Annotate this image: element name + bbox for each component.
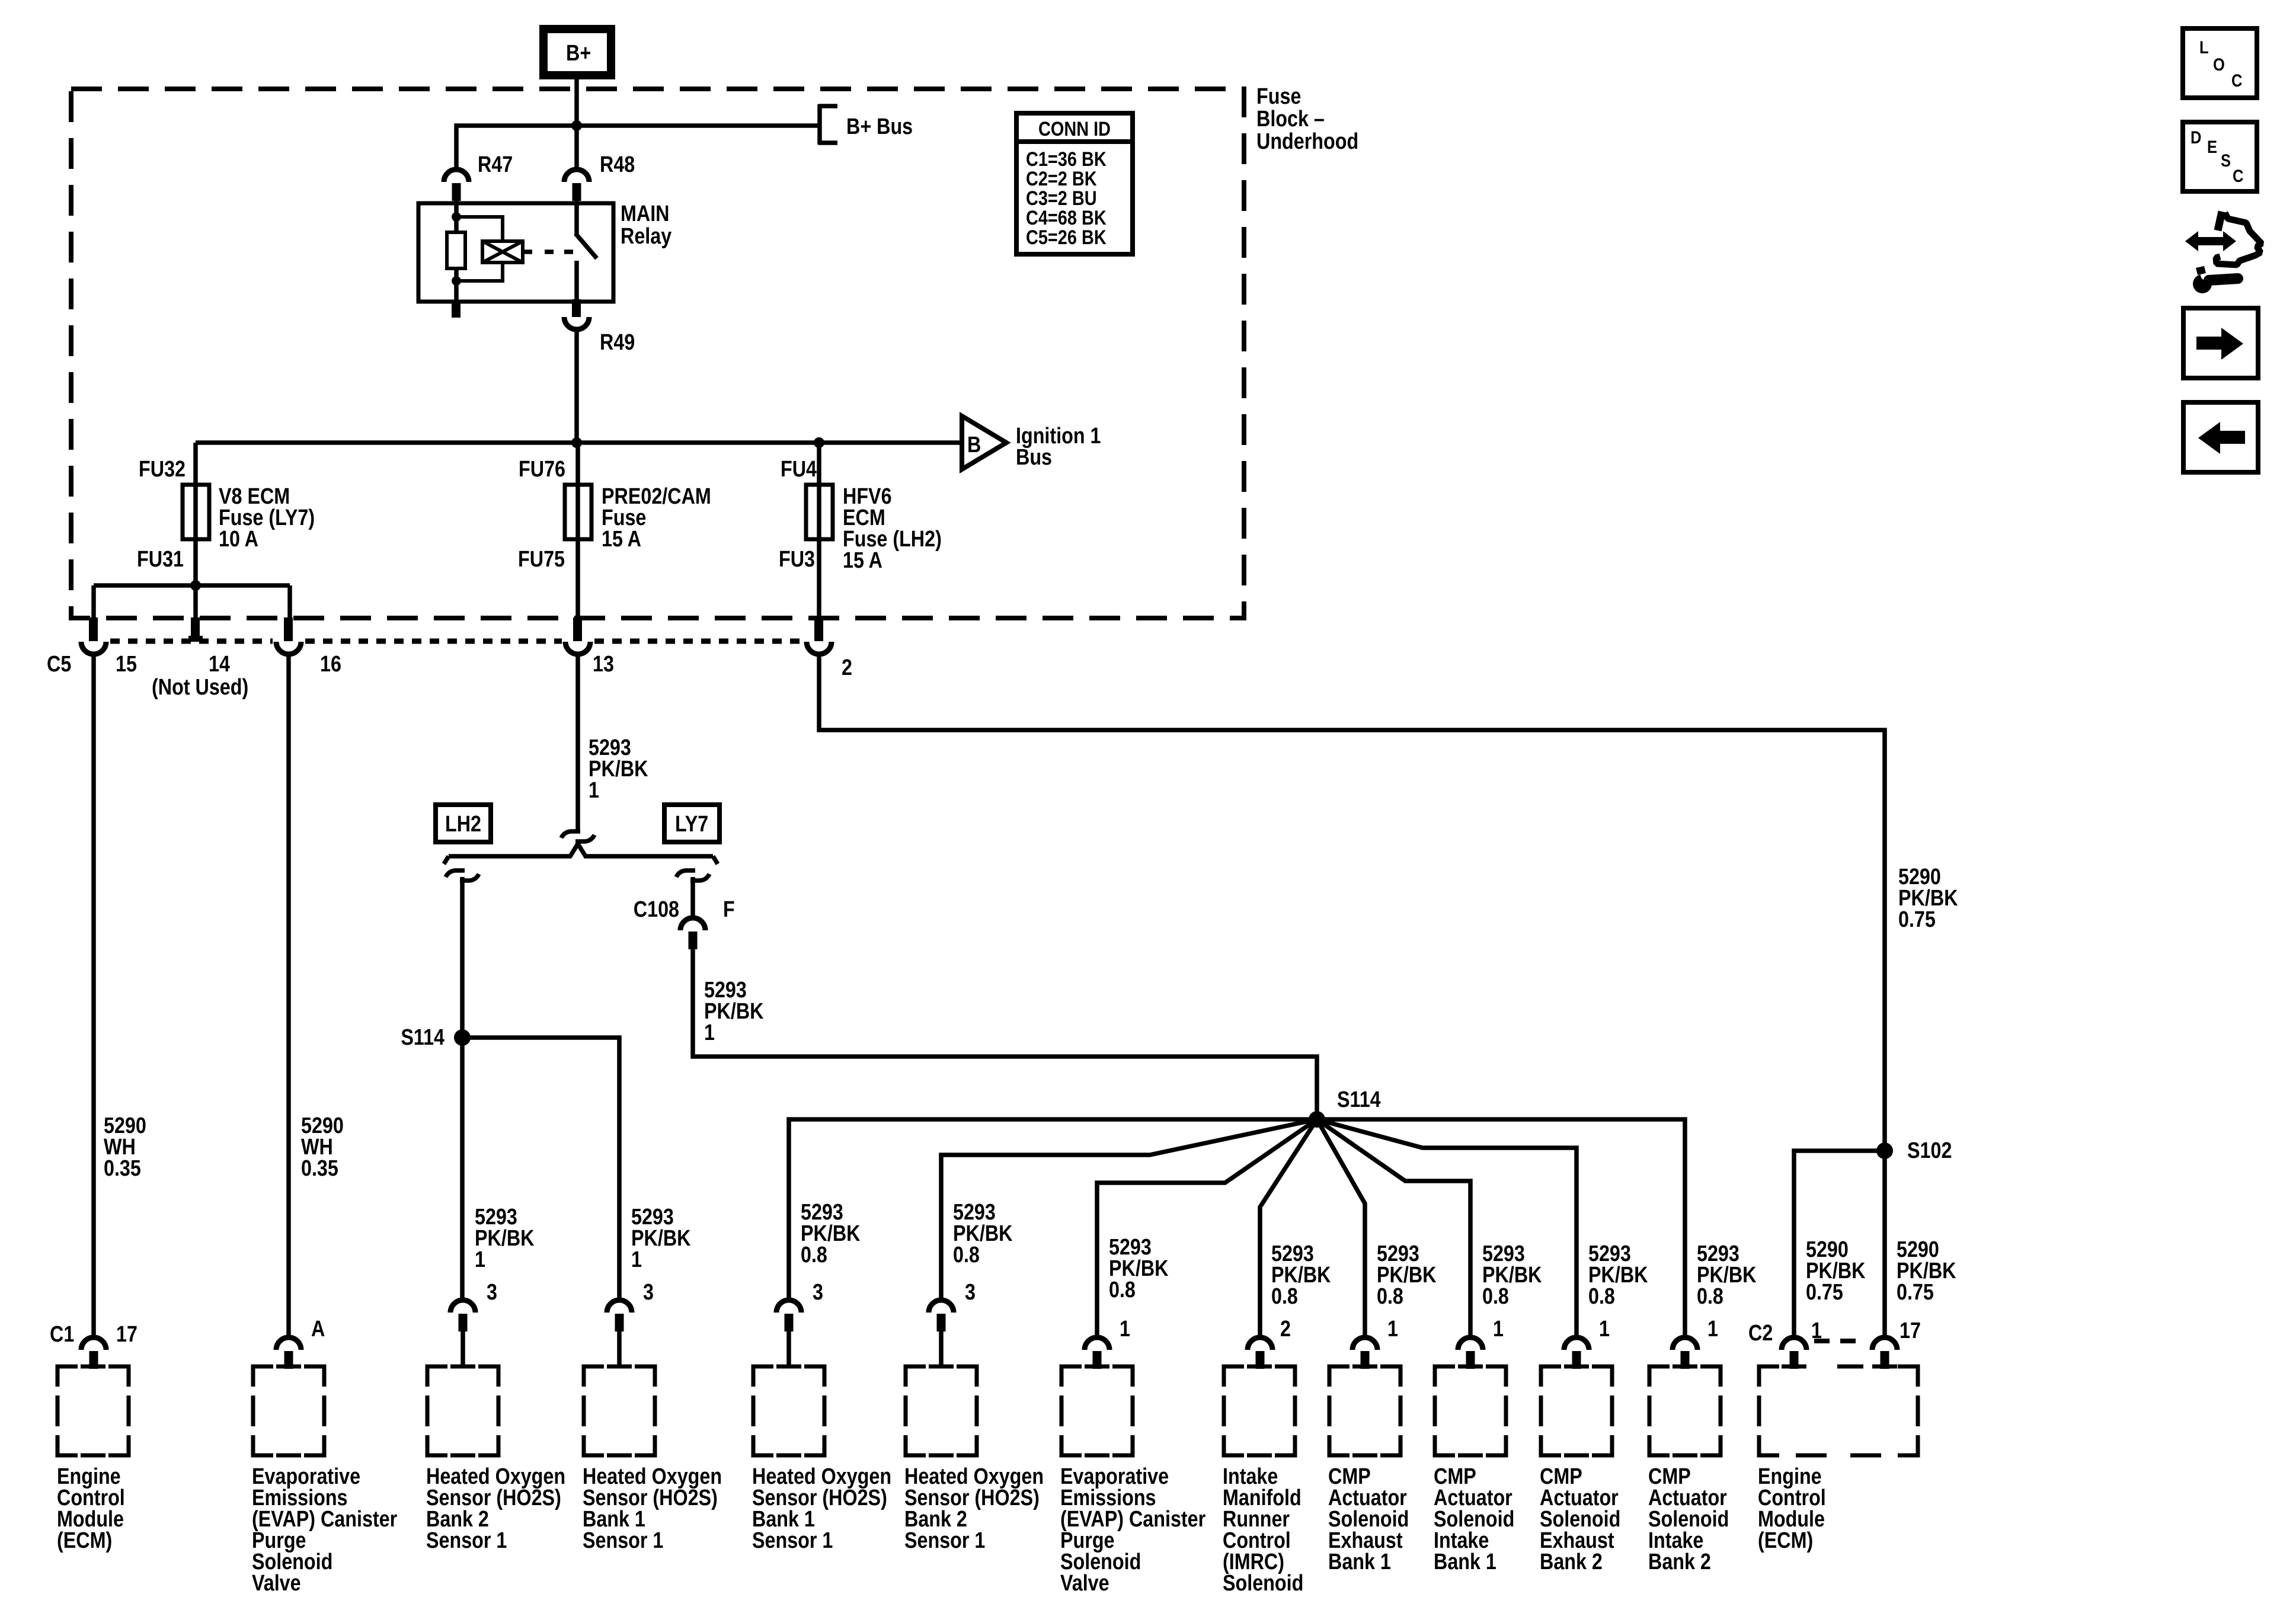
connector IMRC pin 2 xyxy=(1248,1317,1291,1369)
fan wire to HO2S B1S1 (pin5) xyxy=(789,1119,1317,1299)
HO2S bank2 sensor1 box (center) xyxy=(906,1366,977,1455)
svg-text:2: 2 xyxy=(842,655,852,680)
svg-text:3: 3 xyxy=(965,1280,976,1305)
relay bottom stubs xyxy=(454,281,459,300)
label 5293 PK/BK 0.8 (pin11) xyxy=(1588,1241,1648,1309)
C5 pin 16 xyxy=(276,617,341,677)
svg-text:C: C xyxy=(2231,71,2242,90)
EVAP canister purge solenoid valve box (left) xyxy=(253,1366,324,1455)
svg-text:0.35: 0.35 xyxy=(301,1156,338,1181)
branch S114L to HO2S B1S1 xyxy=(462,1038,619,1299)
svg-text:2: 2 xyxy=(1280,1317,1291,1342)
label 5293 PK/BK 0.8 (pin12) xyxy=(1697,1241,1757,1309)
fan wire to EVAP (pin7) xyxy=(1097,1119,1317,1337)
DESC icon box xyxy=(2183,122,2257,191)
svg-text:3: 3 xyxy=(643,1280,654,1305)
C5 pin 2 xyxy=(807,617,852,680)
svg-text:C108: C108 xyxy=(634,897,679,922)
svg-text:Bank 1: Bank 1 xyxy=(1328,1550,1391,1574)
svg-text:Fuse: Fuse xyxy=(1256,84,1301,109)
svg-text:0.8: 0.8 xyxy=(1588,1284,1615,1309)
svg-text:1: 1 xyxy=(1387,1317,1398,1342)
wire B+ down to junction xyxy=(574,75,579,169)
label 5290 PK/BK 0.75 (C2 pin17) xyxy=(1897,1237,1956,1305)
svg-text:13: 13 xyxy=(593,652,614,677)
svg-text:C1: C1 xyxy=(50,1322,74,1347)
connector EVAP pin A xyxy=(276,1317,325,1369)
B+ Bus bracket xyxy=(818,104,913,145)
svg-text:0.8: 0.8 xyxy=(1697,1284,1723,1309)
label 5293 PK/BK 0.8 (pin6) xyxy=(953,1200,1013,1267)
svg-text:Solenoid: Solenoid xyxy=(1223,1571,1303,1596)
HO2S bank2 sensor1 label xyxy=(426,1464,565,1553)
Ignition 1 Bus triangle xyxy=(962,416,1101,470)
svg-text:Underhood: Underhood xyxy=(1256,129,1358,154)
svg-text:Sensor 1: Sensor 1 xyxy=(426,1528,507,1553)
connector C108 pin F xyxy=(634,897,735,949)
connector CMP intake B1 pin 1 xyxy=(1458,1317,1504,1369)
svg-text:1: 1 xyxy=(1493,1317,1504,1342)
fan wire to HO2S B2S1 (pin6) xyxy=(941,1119,1317,1299)
EVAP left label xyxy=(252,1464,397,1596)
svg-text:Block –: Block – xyxy=(1256,107,1325,132)
svg-text:Valve: Valve xyxy=(1060,1571,1109,1596)
svg-text:B+: B+ xyxy=(566,41,591,66)
fan wire to CMP intake B1 (pin10) xyxy=(1317,1119,1470,1337)
ignition 1 bus horizontal wire xyxy=(196,440,962,445)
hand with wrench icon xyxy=(2185,212,2262,293)
svg-text:Sensor 1: Sensor 1 xyxy=(752,1528,833,1553)
svg-text:MAIN: MAIN xyxy=(621,201,670,226)
CMP exhaust bank1 label xyxy=(1328,1464,1409,1574)
svg-text:O: O xyxy=(2213,55,2225,74)
HO2S bank1 sensor1 label (center) xyxy=(752,1464,891,1553)
connector C2 pin 1 (ECM right) xyxy=(1748,1318,1822,1369)
label 5293 PK/BK 1 (HO2S B2S1) xyxy=(475,1205,535,1272)
svg-text:E: E xyxy=(2207,137,2217,156)
fuse block dashed border xyxy=(71,89,1244,618)
svg-text:1: 1 xyxy=(475,1247,485,1272)
connector CMP exhaust B1 pin 1 xyxy=(1352,1317,1398,1369)
svg-text:FU76: FU76 xyxy=(519,457,565,482)
LH2 tag box xyxy=(436,805,491,842)
wire C5 pin2 to S102 xyxy=(819,657,1885,1337)
svg-text:FU32: FU32 xyxy=(139,457,186,482)
label 5293 PK/BK 0.8 (pin8) xyxy=(1271,1241,1331,1309)
svg-text:R47: R47 xyxy=(478,152,513,177)
LY7 tag box xyxy=(664,805,720,842)
C5 pin 13 xyxy=(565,617,614,677)
svg-text:(ECM): (ECM) xyxy=(1758,1528,1813,1553)
svg-text:16: 16 xyxy=(320,652,341,677)
svg-text:Relay: Relay xyxy=(621,224,672,249)
svg-text:F: F xyxy=(723,897,735,922)
HO2S bank2 sensor1 label (center) xyxy=(904,1464,1044,1553)
C5 pin 15 xyxy=(81,617,137,677)
svg-text:0.75: 0.75 xyxy=(1898,907,1936,932)
svg-text:0.8: 0.8 xyxy=(1482,1284,1509,1309)
CMP intake bank2 label xyxy=(1648,1464,1729,1574)
EVAP canister purge solenoid valve box (right) xyxy=(1061,1366,1133,1455)
svg-text:Bank 2: Bank 2 xyxy=(1648,1550,1711,1574)
svg-text:1: 1 xyxy=(1599,1317,1610,1342)
fuse FU32 xyxy=(137,443,315,572)
svg-text:D: D xyxy=(2191,127,2201,147)
C5 pin 14 (not used) xyxy=(152,617,248,700)
CMP actuator solenoid exhaust bank2 box xyxy=(1541,1366,1612,1455)
LOC icon box xyxy=(2183,28,2257,98)
svg-text:(ECM): (ECM) xyxy=(57,1528,112,1553)
wire C5 pin16 to EVAP pin A xyxy=(286,657,291,1337)
svg-text:0.8: 0.8 xyxy=(801,1243,827,1267)
right arm wire to C108 xyxy=(690,877,695,918)
svg-text:Valve: Valve xyxy=(252,1571,301,1596)
svg-text:0.8: 0.8 xyxy=(953,1243,980,1267)
ECM left label xyxy=(57,1464,125,1553)
svg-text:1: 1 xyxy=(631,1247,642,1272)
svg-text:Sensor 1: Sensor 1 xyxy=(904,1528,985,1553)
svg-text:0.8: 0.8 xyxy=(1377,1284,1403,1309)
svg-text:B+ Bus: B+ Bus xyxy=(846,114,913,139)
svg-text:15 A: 15 A xyxy=(843,548,882,573)
IMRC solenoid box xyxy=(1224,1366,1295,1455)
CONN ID table xyxy=(1016,113,1133,254)
connector R49 xyxy=(564,317,635,355)
svg-text:FU75: FU75 xyxy=(518,547,565,572)
svg-text:R49: R49 xyxy=(600,330,635,355)
label 5293 PK/BK 1 (HO2S B1S1) xyxy=(631,1205,691,1272)
connector HO2S B1S1 pin 3 xyxy=(607,1280,654,1366)
svg-text:FU4: FU4 xyxy=(781,457,817,482)
EVAP right label xyxy=(1060,1464,1205,1596)
connector R48 xyxy=(564,152,635,201)
svg-text:Bank 2: Bank 2 xyxy=(1540,1550,1603,1574)
svg-text:0.8: 0.8 xyxy=(1109,1278,1136,1302)
svg-text:R48: R48 xyxy=(600,152,635,177)
fan wire to CMP exhaust B2 (pin11) xyxy=(1317,1119,1576,1337)
svg-text:1: 1 xyxy=(1707,1317,1718,1342)
label 5293 PK/BK 0.8 (pin5) xyxy=(801,1200,861,1267)
coil parallel branch xyxy=(456,217,503,241)
CMP actuator solenoid intake bank2 box xyxy=(1649,1366,1721,1455)
connector HO2S B2S1 pin 3 (center) xyxy=(929,1280,976,1366)
svg-text:C5: C5 xyxy=(47,652,71,677)
HO2S bank1 sensor1 box (center) xyxy=(753,1366,824,1455)
svg-text:FU31: FU31 xyxy=(137,547,184,572)
IMRC label xyxy=(1223,1464,1303,1596)
connector HO2S B1S1 pin 3 (center) xyxy=(776,1280,823,1366)
svg-text:3: 3 xyxy=(487,1280,497,1305)
wire top horizontal to R47 and B+ Bus bracket xyxy=(456,126,820,169)
svg-text:1: 1 xyxy=(589,778,599,803)
MAIN relay box xyxy=(418,201,672,302)
svg-text:14: 14 xyxy=(209,652,230,677)
ECM right label xyxy=(1758,1464,1826,1553)
left arrow icon box xyxy=(2183,402,2258,472)
svg-text:S114: S114 xyxy=(1337,1087,1381,1112)
fan wire to CMP exhaust B1 (pin9) xyxy=(1317,1119,1365,1337)
label 5293 PK/BK 0.8 (pin7) xyxy=(1109,1235,1169,1302)
svg-text:3: 3 xyxy=(813,1280,823,1305)
left arm wire down to S114 left xyxy=(460,877,465,1299)
C2 connector dashes between pins xyxy=(1814,1339,1866,1343)
svg-text:(Not Used): (Not Used) xyxy=(152,675,248,700)
relay internal: left coil branch xyxy=(454,201,459,232)
svg-text:0.75: 0.75 xyxy=(1897,1280,1934,1305)
svg-text:S114: S114 xyxy=(401,1025,445,1050)
connector R47 xyxy=(444,152,513,201)
svg-text:S102: S102 xyxy=(1907,1138,1952,1163)
svg-text:C2: C2 xyxy=(1748,1321,1773,1346)
CMP intake bank1 label xyxy=(1434,1464,1514,1574)
svg-text:Bank 1: Bank 1 xyxy=(1434,1550,1496,1574)
resistor xyxy=(447,232,465,268)
CMP exhaust bank2 label xyxy=(1540,1464,1620,1574)
connector CMP intake B2 pin 1 xyxy=(1673,1317,1718,1369)
wire C5 pin15 to ECM C1 pin 17 xyxy=(91,657,96,1337)
svg-text:A: A xyxy=(311,1317,325,1342)
svg-text:LY7: LY7 xyxy=(675,812,708,837)
relay coil (box with X) xyxy=(482,241,523,263)
svg-text:B: B xyxy=(967,433,981,457)
svg-text:1: 1 xyxy=(704,1020,715,1045)
svg-text:0.8: 0.8 xyxy=(1271,1284,1298,1309)
B+ power box xyxy=(543,29,611,75)
fan wire to IMRC (pin8) xyxy=(1260,1119,1317,1337)
wire pin13 down to break xyxy=(575,657,580,831)
svg-text:0.75: 0.75 xyxy=(1806,1280,1843,1305)
svg-text:C: C xyxy=(2233,166,2243,185)
svg-text:L: L xyxy=(2199,37,2209,57)
svg-text:15 A: 15 A xyxy=(602,527,641,552)
connector C2 pin 17 (ECM right) xyxy=(1872,1318,1921,1369)
split brace xyxy=(449,844,713,856)
svg-text:LH2: LH2 xyxy=(445,812,481,837)
svg-text:1: 1 xyxy=(1120,1317,1130,1342)
fan wire to CMP intake B2 (pin12) xyxy=(1317,1119,1685,1337)
connector CMP exhaust B2 pin 1 xyxy=(1564,1317,1610,1369)
svg-text:CONN ID: CONN ID xyxy=(1038,117,1111,140)
FU31 T junction xyxy=(193,539,198,585)
label 5293 PK/BK 0.8 (pin10) xyxy=(1482,1241,1542,1309)
break hook top xyxy=(561,831,594,841)
wire C108 down, right to S114 xyxy=(693,949,1317,1119)
svg-text:17: 17 xyxy=(116,1322,137,1347)
label 5293 PK/BK 0.8 (pin9) xyxy=(1377,1241,1437,1309)
coil actuation dashed link xyxy=(523,249,532,254)
CMP actuator solenoid intake bank1 box xyxy=(1435,1366,1506,1455)
connector HO2S B2S1 pin 3 xyxy=(450,1280,497,1366)
right arrow icon box xyxy=(2183,308,2258,378)
splice S114 (left) xyxy=(401,1025,471,1050)
fuse FU76 xyxy=(518,443,711,617)
svg-text:17: 17 xyxy=(1900,1318,1921,1343)
right arm hook xyxy=(676,870,709,881)
svg-text:15: 15 xyxy=(116,652,137,677)
svg-text:S: S xyxy=(2221,151,2231,170)
svg-text:10 A: 10 A xyxy=(219,527,258,552)
HO2S bank1 sensor1 label xyxy=(583,1464,722,1553)
fuse FU4 xyxy=(779,443,942,617)
label 5290 PK/BK 0.75 (C2 pin1) xyxy=(1806,1237,1866,1305)
wire R49 down to ignition bus line xyxy=(574,331,579,443)
connector EVAP pin 1 xyxy=(1085,1317,1130,1369)
CMP actuator solenoid exhaust bank1 box xyxy=(1329,1366,1400,1455)
svg-text:Bus: Bus xyxy=(1016,445,1052,470)
branch S102 to C2 pin 1 xyxy=(1794,1151,1885,1337)
relay switch xyxy=(574,201,579,235)
splice S102 xyxy=(1876,1138,1952,1163)
HO2S bank2 sensor1 box xyxy=(427,1366,498,1455)
connector C1 pin 17 (ECM left) xyxy=(50,1322,137,1369)
svg-text:Sensor 1: Sensor 1 xyxy=(583,1528,663,1553)
C5 row dotted line xyxy=(110,639,273,644)
svg-text:C5=26 BK: C5=26 BK xyxy=(1026,226,1107,249)
left arm hook xyxy=(446,870,479,881)
HO2S bank1 sensor1 box xyxy=(584,1366,655,1455)
ECM (right) wide box xyxy=(1759,1366,1918,1455)
svg-text:0.35: 0.35 xyxy=(104,1156,141,1181)
junction dot at top bus xyxy=(571,120,582,131)
ECM (left) box xyxy=(57,1366,129,1455)
svg-text:FU3: FU3 xyxy=(779,547,815,572)
